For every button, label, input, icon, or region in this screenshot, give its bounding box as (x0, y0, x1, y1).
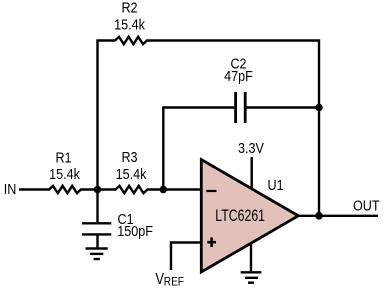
svg-text:R2: R2 (121, 0, 137, 16)
svg-text:15.4k: 15.4k (49, 165, 80, 182)
svg-text:3.3V: 3.3V (238, 139, 265, 156)
svg-text:LTC6261: LTC6261 (215, 207, 265, 225)
svg-text:15.4k: 15.4k (116, 165, 147, 182)
svg-text:R1: R1 (55, 148, 71, 165)
svg-text:IN: IN (4, 180, 17, 197)
svg-text:OUT: OUT (353, 196, 380, 213)
svg-text:REF: REF (164, 276, 184, 289)
svg-text:U1: U1 (268, 176, 284, 193)
svg-text:150pF: 150pF (117, 222, 153, 239)
svg-text:47pF: 47pF (224, 67, 253, 84)
svg-text:R3: R3 (121, 148, 137, 165)
svg-text:15.4k: 15.4k (114, 15, 145, 32)
